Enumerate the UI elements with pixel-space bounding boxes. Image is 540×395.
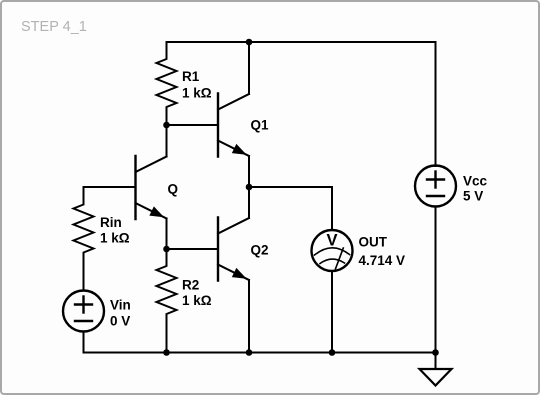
svg-text:1 kΩ: 1 kΩ bbox=[182, 86, 212, 101]
svg-text:V: V bbox=[326, 232, 337, 250]
svg-text:Vin: Vin bbox=[110, 298, 131, 313]
wire Q collector lead bbox=[166, 125, 168, 157]
voltmeter OUT bbox=[312, 230, 353, 271]
svg-text:R2: R2 bbox=[182, 278, 199, 293]
wire top rail bbox=[167, 41, 436, 43]
node top rail junction bbox=[246, 39, 253, 46]
svg-text:STEP 4_1: STEP 4_1 bbox=[21, 19, 87, 35]
wire Vcc to bottom rail bbox=[435, 207, 437, 353]
wire R1 bottom to Q1 base bbox=[167, 124, 219, 126]
node OUT junction bbox=[246, 184, 253, 191]
node Q2 emitter bottom junction bbox=[246, 349, 253, 356]
svg-text:4.714 V: 4.714 V bbox=[359, 253, 406, 268]
transistor Q bbox=[136, 156, 167, 219]
svg-text:OUT: OUT bbox=[359, 235, 388, 250]
wire Q2 base wire bbox=[167, 248, 219, 250]
resistor R1 bbox=[157, 42, 177, 125]
node ground junction bbox=[432, 349, 439, 356]
wire Q1 collector lead bbox=[248, 42, 250, 94]
wire OUT node to voltmeter bbox=[249, 187, 332, 230]
wire bottom rail bbox=[84, 352, 436, 354]
svg-text:Q1: Q1 bbox=[251, 118, 270, 133]
wire Vcc top lead bbox=[435, 42, 437, 166]
svg-text:1 kΩ: 1 kΩ bbox=[182, 293, 212, 308]
source Vin bbox=[63, 291, 104, 332]
resistor R2 bbox=[157, 249, 177, 353]
node Q emitter / R2 / Q2 base junction bbox=[163, 246, 170, 253]
svg-text:5 V: 5 V bbox=[463, 189, 483, 204]
node R2 bottom junction bbox=[163, 349, 170, 356]
wire Vin to bottom rail bbox=[83, 332, 85, 353]
resistor Rin bbox=[74, 187, 94, 291]
svg-text:Vcc: Vcc bbox=[463, 174, 488, 189]
svg-text:Rin: Rin bbox=[100, 215, 122, 230]
transistor Q1 bbox=[218, 94, 249, 157]
wire ground lead bbox=[435, 353, 437, 370]
svg-text:1 kΩ: 1 kΩ bbox=[100, 231, 130, 246]
node voltmeter bottom junction bbox=[329, 349, 336, 356]
ground bbox=[420, 369, 452, 386]
svg-text:0 V: 0 V bbox=[110, 314, 130, 329]
wire voltmeter to bottom rail bbox=[331, 271, 333, 353]
source Vcc bbox=[415, 166, 456, 207]
wire Q base wire bbox=[84, 186, 136, 188]
wire Q2 emitter lead bbox=[248, 280, 250, 353]
svg-text:R1: R1 bbox=[182, 69, 200, 84]
wire Q emitter lead bbox=[166, 219, 168, 250]
node R1 / Q collector junction bbox=[163, 122, 170, 129]
transistor Q2 bbox=[218, 218, 249, 281]
wire Q1 emitter lead bbox=[248, 156, 250, 187]
wire OUT node to Q2 collector bbox=[248, 187, 250, 218]
svg-text:Q2: Q2 bbox=[251, 243, 269, 258]
svg-text:Q: Q bbox=[168, 182, 179, 197]
